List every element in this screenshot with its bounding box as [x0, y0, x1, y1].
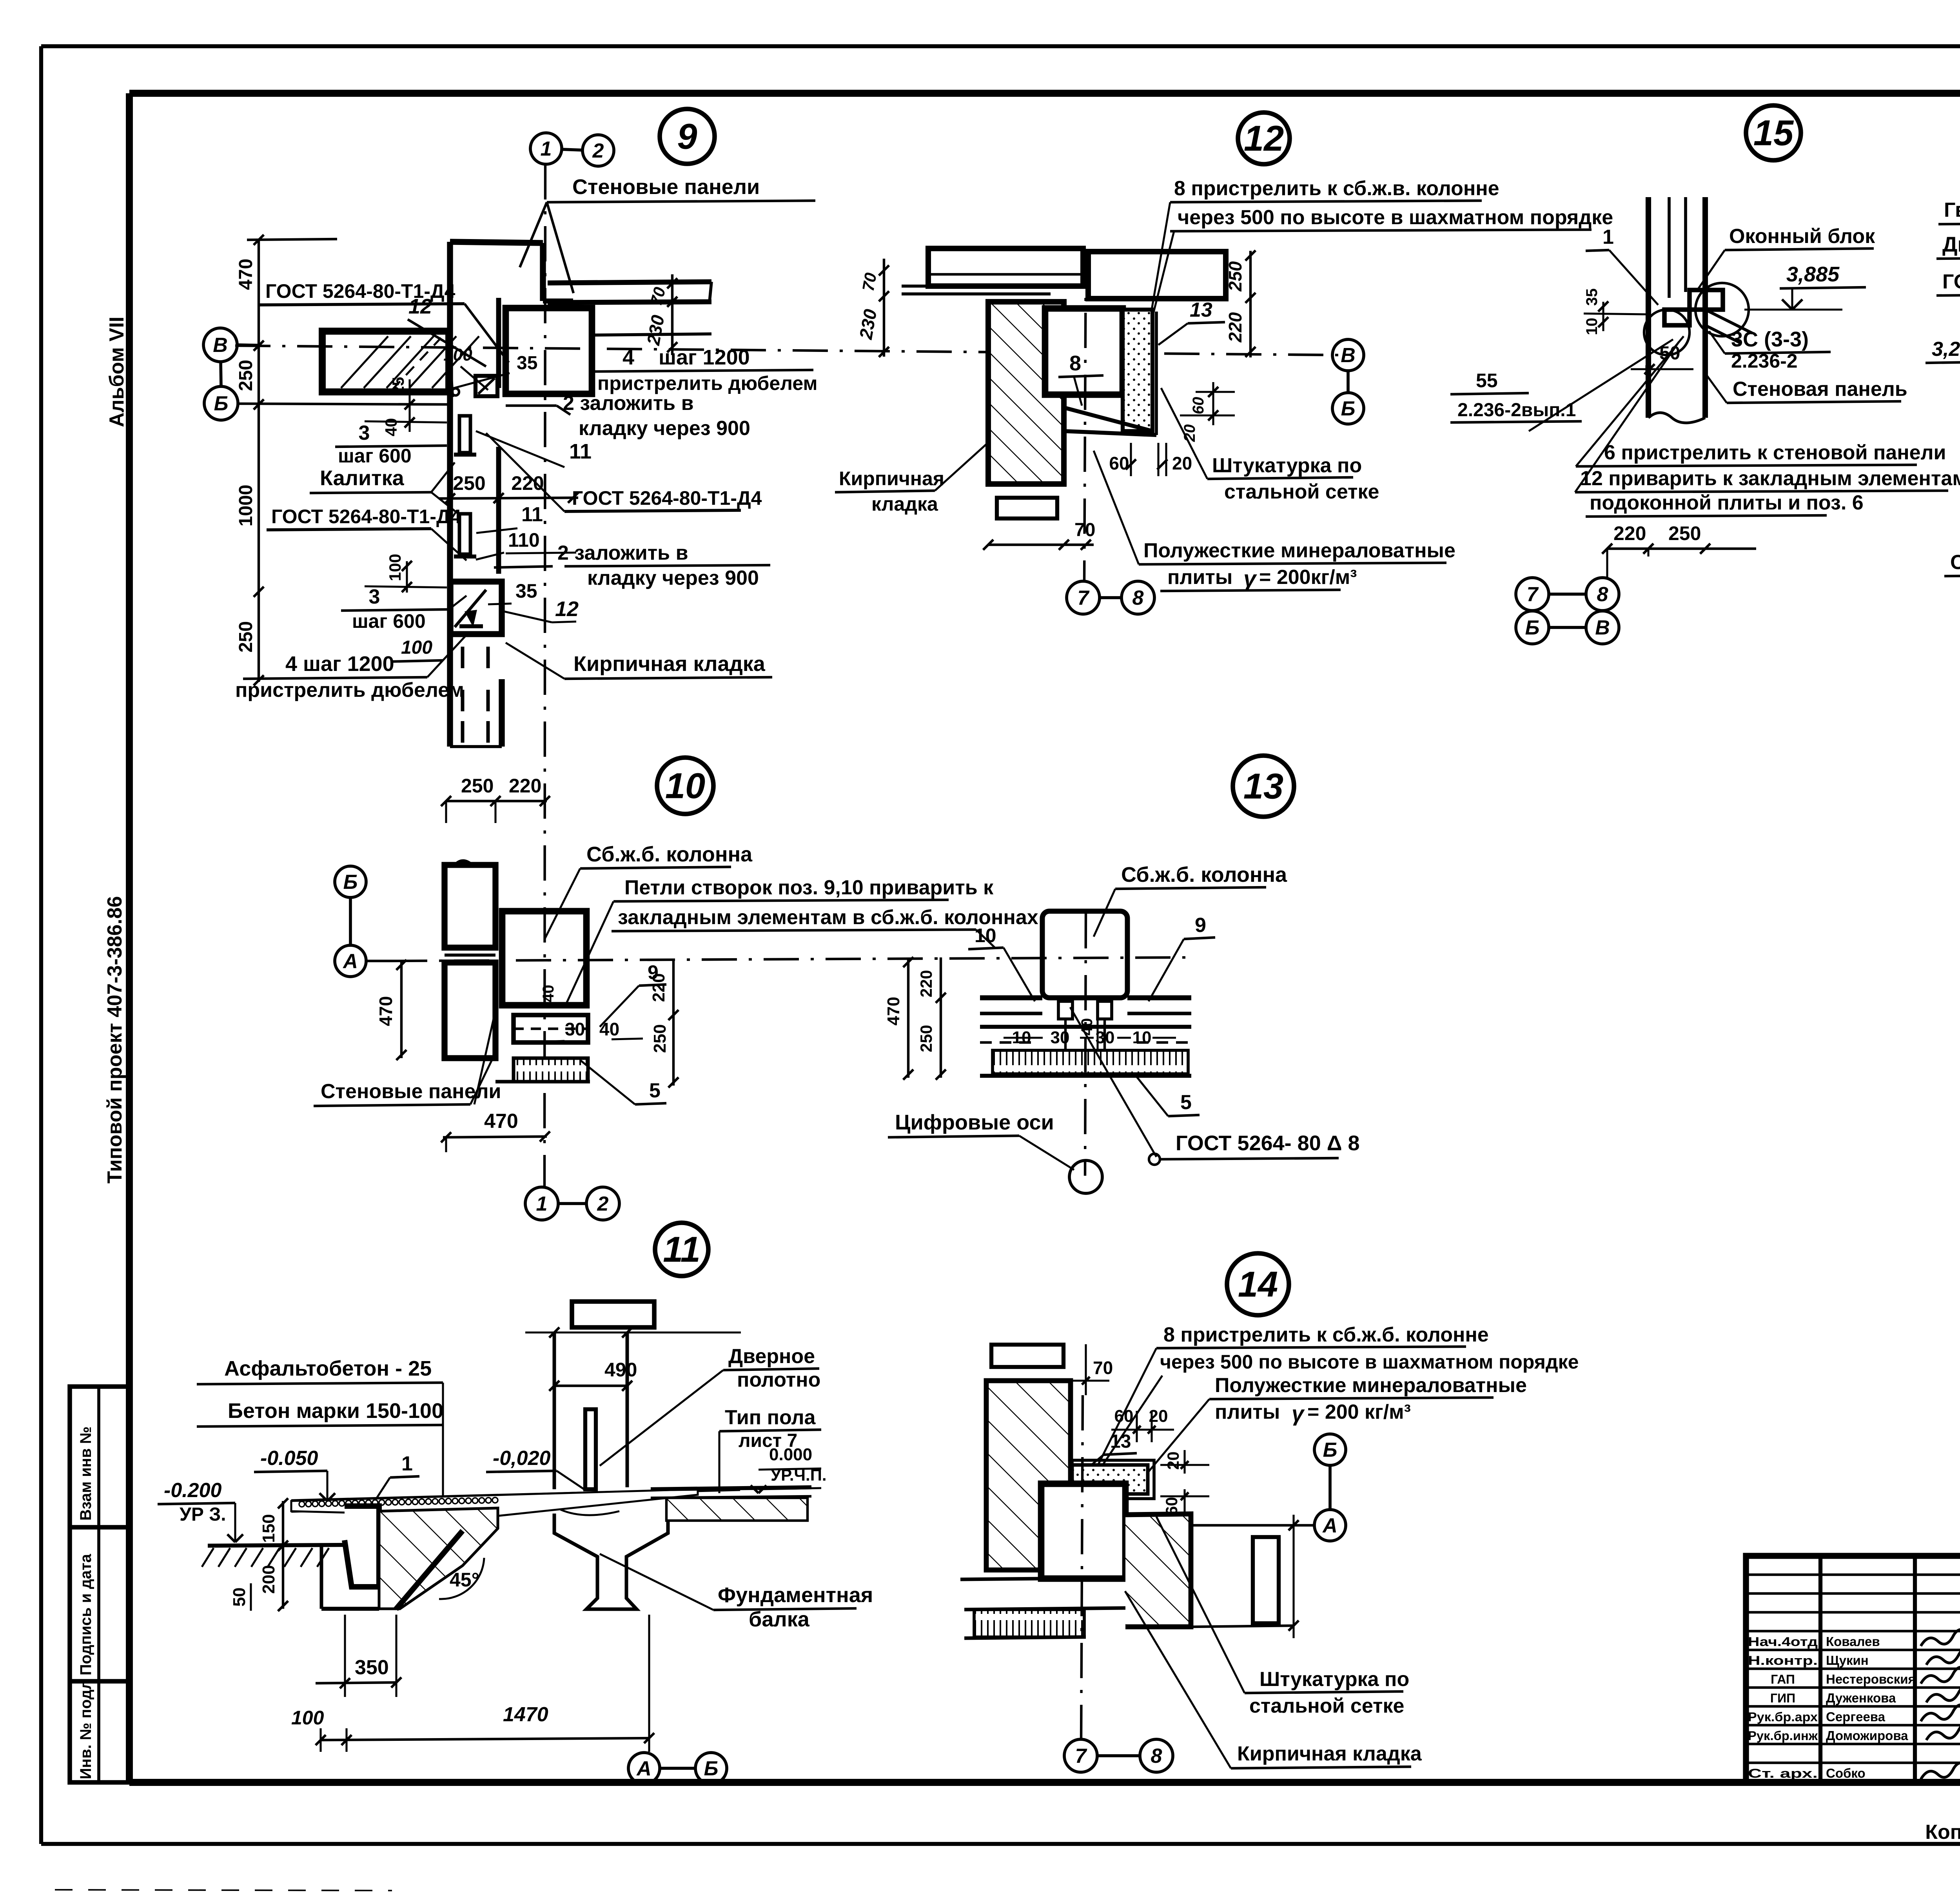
- detail 14 insulation strip hatched: [1072, 1460, 1154, 1499]
- detail 9 vertical axis line 1: [544, 164, 545, 1187]
- svg-text:3С (3-3): 3С (3-3): [1731, 328, 1809, 351]
- detail 11 dims 150 200 50 left: [230, 1498, 288, 1611]
- svg-text:3: 3: [359, 422, 370, 444]
- svg-text:250: 250: [236, 621, 256, 653]
- detail 9 gate post upper: [454, 416, 476, 455]
- svg-text:Б: Б: [1525, 616, 1540, 639]
- detail 10 dim 470 bottom: [441, 1110, 550, 1152]
- svg-text:8: 8: [1597, 583, 1608, 606]
- detail 15 elevation 3,885: [1744, 263, 1866, 310]
- svg-text:470: 470: [376, 996, 396, 1026]
- svg-text:кладку через 900: кладку через 900: [579, 417, 750, 440]
- detail 10 labels 40 9: [540, 961, 666, 1027]
- detail 9 label 100 bottom: [392, 637, 443, 662]
- detail 10 label Петли створок: [566, 876, 1038, 1003]
- detail 9 brick wall vertical: [450, 242, 573, 679]
- detail 16 elevation 3,280 left: [1926, 338, 1960, 383]
- svg-text:55: 55: [1476, 370, 1498, 392]
- detail 9 dim 70 230 right: [643, 274, 677, 355]
- detail 13 label 10 left 9 right: [968, 914, 1215, 1001]
- svg-text:А: А: [636, 1757, 652, 1780]
- svg-text:полотно: полотно: [737, 1369, 820, 1391]
- detail 12 label 8 пристрелить: [1152, 177, 1613, 314]
- detail 10 axis line А: [392, 957, 1188, 961]
- svg-text:через 500 по высоте в шахматно: через 500 по высоте в шахматном порядке: [1160, 1351, 1579, 1373]
- svg-text:Кирпичная кладка: Кирпичная кладка: [573, 652, 766, 676]
- detail 11 concrete wedge with hatch: [321, 1508, 498, 1609]
- detail 14 dims 60 20 top: [1111, 1407, 1174, 1442]
- detail 10 circle: [657, 758, 713, 814]
- detail 10 column: [502, 911, 586, 1005]
- title block job titles and names: [1748, 1634, 1916, 1780]
- detail 11 label Дверное полотно: [600, 1345, 820, 1466]
- svg-text:12 приварить к закладным элем: 12 приварить к закладным элементам: [1580, 467, 1960, 490]
- svg-text:Ст. арх.: Ст. арх.: [1748, 1766, 1818, 1780]
- svg-text:8: 8: [1069, 352, 1081, 375]
- svg-text:2.236-2вып.1: 2.236-2вып.1: [1457, 400, 1576, 421]
- detail 12 vertical axis 7: [1084, 251, 1086, 581]
- svg-text:Рук.бр.арх: Рук.бр.арх: [1748, 1710, 1818, 1724]
- detail 13 dim 40 center: [1078, 1003, 1098, 1050]
- svg-text:12: 12: [1244, 118, 1284, 158]
- svg-text:12: 12: [555, 597, 579, 621]
- svg-text:150: 150: [259, 1514, 278, 1543]
- detail 9 label Кирпичная кладка: [506, 643, 772, 679]
- svg-text:В: В: [1595, 616, 1610, 639]
- detail 14 axis bubbles Б А: [1125, 1434, 1346, 1541]
- svg-text:250: 250: [917, 1025, 935, 1052]
- svg-text:3,280: 3,280: [1932, 338, 1960, 361]
- svg-text:Дюбели ДГП 4,5х60: Дюбели ДГП 4,5х60: [1942, 233, 1960, 256]
- svg-text:60: 60: [1109, 453, 1129, 473]
- detail 14 label Кирпичная кладка: [1125, 1591, 1422, 1768]
- svg-text:Ковалев: Ковалев: [1826, 1634, 1880, 1649]
- svg-text:ГОСТ 5264-80-Т1-Д4: ГОСТ 5264-80-Т1-Д4: [271, 506, 461, 528]
- svg-text:8 пристрелить к сб.ж.б. колонн: 8 пристрелить к сб.ж.б. колонне: [1163, 1323, 1489, 1346]
- detail 12 vent opening: [997, 498, 1057, 518]
- detail 15 dims 35 10 50: [1583, 288, 1693, 374]
- svg-text:250: 250: [650, 1024, 670, 1053]
- svg-text:1: 1: [401, 1452, 413, 1475]
- detail 14 dim 70: [1071, 1344, 1113, 1395]
- detail 9 labels 11 110 lower: [476, 503, 576, 560]
- detail 9 wall panel left (hatched): [322, 331, 479, 392]
- detail 9 wall bottom continue: [450, 679, 502, 747]
- detail 15 label Стеновая панель: [1706, 374, 1907, 403]
- svg-text:Копировал Ермолина: Копировал Ермолина: [1925, 1821, 1960, 1844]
- svg-text:подоконной плиты и поз. 6: подоконной плиты и поз. 6: [1590, 491, 1864, 514]
- detail 11 angle 45 arc: [439, 1558, 484, 1599]
- left margin stamp table: [70, 1387, 129, 1782]
- svg-text:490: 490: [604, 1359, 637, 1381]
- detail 9 label 11 right: [476, 431, 592, 467]
- svg-text:12: 12: [408, 295, 432, 318]
- detail 15 leader lines to anchor: [1529, 336, 1684, 492]
- detail 15 label Оконный блок: [1697, 225, 1875, 290]
- detail 9 dims 25 40: [365, 377, 447, 437]
- svg-text:шаг 600: шаг 600: [338, 445, 412, 467]
- detail 10 label 5: [580, 1060, 666, 1104]
- detail 11 floor slab section: [291, 1489, 740, 1516]
- svg-text:Штукатурка по: Штукатурка по: [1259, 1668, 1409, 1691]
- svg-text:10: 10: [665, 766, 705, 806]
- detail 11 label Асфальтобетон Бетон: [197, 1357, 443, 1497]
- detail 12 brick wall section: [988, 302, 1064, 484]
- detail 12 dim 70 230 left: [855, 259, 889, 357]
- svg-text:кладку через 900: кладку через 900: [587, 567, 759, 589]
- detail 9 label 2 заложить в кладку upper: [506, 392, 750, 440]
- detail 11 door leaf: [585, 1409, 612, 1494]
- svg-text:ГОСТ 5264- 80 Δ 8: ГОСТ 5264- 80 Δ 8: [1176, 1131, 1360, 1155]
- detail 16 label Стальная площадка: [1944, 551, 1960, 576]
- detail 15 label 1: [1586, 226, 1658, 305]
- svg-text:350: 350: [355, 1656, 389, 1679]
- detail 9 dim 470 250 1000 250 left column: [236, 235, 337, 685]
- detail 11 curb block 1: [345, 1506, 379, 1587]
- left margin text: Типовой проект 407-3-386.86: [103, 896, 126, 1184]
- detail 15 label 3С (3-3) 2.236-2: [1709, 328, 1831, 372]
- svg-text:250: 250: [453, 472, 485, 494]
- detail 13 label Цифровые оси: [888, 1111, 1074, 1170]
- svg-text:стальной сетке: стальной сетке: [1224, 480, 1379, 503]
- svg-text:В: В: [213, 334, 228, 357]
- svg-text:А: А: [342, 950, 358, 973]
- detail 9 label 2 заложить в кладку lower: [494, 542, 770, 589]
- svg-text:40: 40: [540, 985, 557, 1002]
- detail 14 label Штукатурка по стальной сетке: [1156, 1517, 1409, 1717]
- svg-text:Петли створок поз. 9,10 привар: Петли створок поз. 9,10 приварить к: [624, 876, 994, 899]
- svg-text:220: 220: [1613, 522, 1646, 544]
- svg-text:А: А: [1322, 1514, 1338, 1537]
- detail 10 labels 30 40: [547, 1019, 643, 1042]
- bottom scan artifact line: [55, 1890, 392, 1891]
- svg-text:шаг 600: шаг 600: [352, 610, 426, 632]
- detail 14 brick pier right: [1125, 1514, 1299, 1638]
- detail 13 dims 10 30 30 10: [1004, 1028, 1176, 1047]
- detail 14 axis bubbles 7 8: [1064, 1739, 1173, 1772]
- svg-text:70: 70: [1093, 1358, 1113, 1378]
- svg-text:3,885: 3,885: [1786, 263, 1840, 286]
- detail 12 axis bubbles 7 8 bottom: [1067, 581, 1154, 614]
- detail 13 label ГОСТ 5264-80 ДВ: [1149, 1131, 1360, 1165]
- svg-text:15: 15: [1753, 113, 1794, 153]
- svg-text:11: 11: [663, 1229, 701, 1269]
- svg-text:35: 35: [515, 580, 537, 602]
- svg-text:14: 14: [1238, 1264, 1278, 1304]
- svg-text:Дверное: Дверное: [728, 1345, 815, 1368]
- svg-text:Б: Б: [704, 1757, 719, 1780]
- svg-text:пристрелить дюбелем: пристрелить дюбелем: [597, 372, 817, 394]
- svg-text:Б: Б: [1323, 1439, 1338, 1461]
- detail 11 vent block top: [572, 1302, 654, 1327]
- detail 11 label 1: [365, 1452, 419, 1517]
- detail 10 dim 220 250 right rotated: [649, 961, 679, 1088]
- svg-text:13: 13: [1110, 1431, 1131, 1452]
- svg-text:6 пристрелить к стеновой пане: 6 пристрелить к стеновой панели: [1604, 441, 1946, 464]
- svg-text:30: 30: [565, 1019, 585, 1039]
- detail 11 ground line and hatch left: [202, 1545, 345, 1567]
- detail 13 vertical axis and leader: [1070, 913, 1156, 1176]
- svg-text:Дуженкова: Дуженкова: [1826, 1691, 1896, 1705]
- svg-text:Стеновые панели: Стеновые панели: [321, 1080, 501, 1103]
- svg-text:Фундаментная: Фундаментная: [718, 1583, 873, 1607]
- detail 14 vertical axis 7: [1081, 1395, 1083, 1740]
- svg-text:УР З.: УР З.: [180, 1504, 226, 1525]
- detail 9 upper panel strip: [548, 282, 711, 335]
- svg-text:60: 60: [1114, 1407, 1134, 1426]
- svg-text:Стеновая панель: Стеновая панель: [1733, 378, 1907, 401]
- left margin text: Альбом VII: [105, 317, 128, 427]
- detail 16 label Гвозди: [1938, 199, 1960, 347]
- svg-text:Подпись и дата: Подпись и дата: [77, 1554, 94, 1675]
- svg-text:ГИП: ГИП: [1770, 1691, 1795, 1705]
- svg-text:кладка: кладка: [871, 493, 938, 515]
- svg-text:200: 200: [259, 1565, 278, 1593]
- svg-text:35: 35: [517, 353, 537, 373]
- svg-text:ГОСТ 5264-80-Т1-Д4: ГОСТ 5264-80-Т1-Д4: [572, 487, 762, 509]
- detail 11 label -0,020: [486, 1447, 584, 1489]
- detail 9 label 4 шаг 1200 bottom: [235, 635, 466, 702]
- detail 16 label ГОСТ 5264-80-Н1-Д4: [1936, 270, 1960, 368]
- svg-text:Б: Б: [1341, 397, 1356, 420]
- svg-text:100: 100: [291, 1707, 324, 1729]
- detail 12 axis В Б bubbles: [1332, 339, 1364, 424]
- svg-text:Бетон марки 150-100: Бетон марки 150-100: [228, 1399, 443, 1423]
- svg-text:Сб.ж.б. колонна: Сб.ж.б. колонна: [586, 843, 753, 866]
- detail 14 circle: [1227, 1253, 1289, 1315]
- detail 12 circle: [1238, 112, 1290, 164]
- detail 12 dim 250 220 right: [1225, 250, 1256, 357]
- svg-text:470: 470: [236, 259, 256, 290]
- svg-text:2: 2: [597, 1193, 609, 1215]
- detail 14 dims 20 60 rotated: [1160, 1450, 1209, 1521]
- detail 14 label 13: [1086, 1431, 1137, 1470]
- svg-text:2 заложить в: 2 заложить в: [563, 392, 694, 415]
- detail 9 label Калитка: [310, 462, 458, 513]
- svg-text:балка: балка: [749, 1608, 810, 1631]
- svg-text:Кирпичная: Кирпичная: [839, 468, 944, 489]
- detail 14 brick wall with hatch: [986, 1381, 1071, 1570]
- svg-text:100: 100: [401, 637, 432, 658]
- detail 9 horizontal axis В: [235, 346, 1341, 355]
- detail 10 wall panel vertical strip: [445, 861, 495, 1058]
- detail 14 label 8 пристрелить к сб.ж.б. колонне: [1098, 1323, 1579, 1470]
- svg-text:γ: γ: [1243, 566, 1257, 591]
- detail 9 axis bubbles В Б left: [203, 328, 259, 420]
- detail 10 dim 250 220 top: [441, 775, 550, 823]
- detail 12 dim 60 20 right small: [1180, 382, 1235, 442]
- svg-text:470: 470: [884, 997, 903, 1025]
- detail 12 label Кирпичная кладка left: [835, 443, 988, 515]
- detail 9 label ГОСТ 5264-80-Т1-Д4 right: [486, 433, 762, 511]
- svg-text:470: 470: [484, 1110, 518, 1133]
- svg-text:Стеновые панели: Стеновые панели: [572, 175, 760, 199]
- detail 14 top rect: [991, 1345, 1063, 1367]
- svg-text:8: 8: [1151, 1745, 1162, 1767]
- detail 13 label 5: [1137, 1077, 1200, 1116]
- svg-text:70: 70: [859, 271, 880, 292]
- svg-text:Тип пола: Тип пола: [725, 1406, 816, 1429]
- detail 9 label 3 шаг 600 upper: [335, 422, 447, 467]
- svg-text:-0.200: -0.200: [164, 1479, 222, 1502]
- detail 9 axis Б line: [238, 404, 450, 404]
- svg-text:220: 220: [917, 970, 935, 997]
- detail 11 label -0.050: [254, 1447, 335, 1501]
- svg-text:30: 30: [1051, 1028, 1070, 1047]
- detail 12 dim 70 bottom: [983, 520, 1095, 550]
- svg-text:8 пристрелить к сб.ж.в. колонн: 8 пристрелить к сб.ж.в. колонне: [1174, 177, 1499, 200]
- detail 15 window block elements: [1644, 283, 1752, 355]
- detail 10 panel joint marks: [445, 955, 495, 961]
- detail 11 label -0.200 УР З: [158, 1479, 243, 1542]
- detail 15 circle: [1746, 105, 1801, 160]
- svg-text:13: 13: [1243, 766, 1283, 806]
- svg-text:35: 35: [1583, 288, 1601, 306]
- detail 10 panel right with hatch: [495, 1015, 590, 1082]
- svg-text:Альбом VII: Альбом VII: [105, 317, 128, 427]
- detail 9 labels 3 шаг 600 lower: [341, 586, 466, 632]
- svg-text:Сергеева: Сергеева: [1826, 1709, 1886, 1724]
- svg-text:1000: 1000: [236, 485, 256, 527]
- svg-text:13: 13: [1190, 299, 1212, 321]
- svg-text:через 500 по высоте в шахматно: через 500 по высоте в шахматном порядке: [1178, 206, 1613, 229]
- svg-text:плиты: плиты: [1167, 566, 1232, 589]
- detail 9 dim 100 lower: [365, 554, 447, 593]
- detail 12 label 13: [1158, 299, 1225, 345]
- svg-text:4: 4: [622, 346, 634, 369]
- detail 15 label 55 2.236-2вып.1: [1450, 370, 1582, 422]
- svg-text:20: 20: [1172, 453, 1192, 473]
- detail 9 labels 100 35 upper: [443, 345, 537, 390]
- svg-text:Кирпичная кладка: Кирпичная кладка: [1237, 1742, 1422, 1765]
- svg-text:Доможирова: Доможирова: [1826, 1728, 1908, 1743]
- svg-text:ГАП: ГАП: [1771, 1672, 1795, 1686]
- svg-text:Нестеровския: Нестеровския: [1826, 1672, 1916, 1686]
- svg-text:Б: Б: [343, 871, 358, 894]
- svg-text:220: 220: [649, 973, 668, 1002]
- detail 10 axis bubbles 1 2 bottom: [525, 1187, 619, 1220]
- svg-text:-0.050: -0.050: [260, 1447, 318, 1470]
- detail 13 target circle: [1069, 1160, 1102, 1193]
- detail 9 gate hinge detail upper: [452, 376, 497, 397]
- detail 11 label Фундаментная балка: [600, 1554, 873, 1631]
- detail 13 label Сб.ж.б. колонна: [1094, 863, 1287, 937]
- svg-text:ГОСТ 5264-80-Н1-Д4: ГОСТ 5264-80-Н1-Д4: [1942, 270, 1960, 293]
- svg-text:20: 20: [1164, 1452, 1182, 1470]
- svg-text:плиты: плиты: [1215, 1401, 1280, 1423]
- detail 10 axis bubbles Б А: [335, 866, 392, 977]
- detail 9 label 4 шаг 1200 upper: [592, 346, 817, 394]
- title block signatures: [1921, 1630, 1960, 1779]
- svg-text:Штукатурка по: Штукатурка по: [1212, 454, 1362, 477]
- svg-text:11: 11: [521, 503, 543, 526]
- svg-text:250: 250: [461, 775, 494, 797]
- detail 15 axis bubbles 7 8 Б В: [1516, 578, 1619, 644]
- svg-text:100: 100: [443, 345, 472, 364]
- detail 11 asphalt bead band: [299, 1497, 498, 1507]
- detail 9 label Стеновые панели: [520, 175, 815, 293]
- svg-text:10: 10: [975, 925, 996, 946]
- svg-text:= 200 кг/м³: = 200 кг/м³: [1307, 1401, 1411, 1423]
- svg-text:Б: Б: [214, 392, 229, 415]
- detail 15 label 6 пристрелить к стеновой панели: [1575, 441, 1960, 517]
- detail 11 dim 350: [316, 1615, 401, 1697]
- detail 9 gate post lower: [454, 514, 476, 557]
- svg-text:Цифровые оси: Цифровые оси: [895, 1111, 1054, 1134]
- detail 10 label Стеновые панели: [314, 1003, 501, 1106]
- detail 11 dim 100 1470: [291, 1615, 654, 1752]
- svg-text:1: 1: [536, 1193, 548, 1215]
- detail 15 dim 220 250 bottom: [1602, 522, 1756, 578]
- detail 11 axis bubbles А Б: [628, 1753, 727, 1784]
- svg-text:Нач.4отд: Нач.4отд: [1748, 1635, 1818, 1649]
- svg-text:Рук.бр.инж: Рук.бр.инж: [1748, 1729, 1818, 1743]
- detail 11 label Тип пола лист 7 0.000: [719, 1406, 827, 1493]
- detail 9 top-right wall panel block: [506, 308, 592, 394]
- svg-text:250: 250: [1668, 522, 1701, 544]
- detail 11 circle: [655, 1223, 708, 1276]
- detail 12 label Полужесткие минераловатные плиты: [1094, 451, 1455, 591]
- svg-text:стальной сетке: стальной сетке: [1249, 1695, 1404, 1717]
- svg-text:5: 5: [1180, 1091, 1192, 1114]
- svg-text:220: 220: [1225, 312, 1245, 343]
- svg-text:1: 1: [541, 138, 552, 160]
- svg-text:220: 220: [509, 775, 541, 797]
- detail 11 wall verticals: [525, 1327, 741, 1489]
- detail 13 circle: [1233, 756, 1294, 817]
- svg-text:В: В: [1341, 344, 1356, 367]
- svg-text:Полужесткие минераловатные: Полужесткие минераловатные: [1215, 1374, 1527, 1397]
- note Копировал Ермолина: [1925, 1821, 1960, 1844]
- detail 12 column section: [1045, 308, 1123, 395]
- detail 9 lower anchor block: [450, 582, 502, 634]
- detail 9 circle: [660, 109, 715, 164]
- detail 13 anchor marks: [1058, 1001, 1112, 1050]
- svg-text:40: 40: [599, 1019, 619, 1039]
- detail 16 label Дюбели ДГП 45х60: [1936, 233, 1960, 355]
- svg-text:10: 10: [1132, 1028, 1152, 1047]
- detail 13 column: [1042, 911, 1127, 998]
- detail 14 label Полужесткие минераловатные плиты: [1149, 1374, 1527, 1472]
- detail 12 dim 60 20 bottom: [1109, 443, 1192, 476]
- svg-text:Инв. № подл: Инв. № подл: [77, 1680, 94, 1779]
- svg-text:9: 9: [1195, 914, 1206, 937]
- svg-text:Калитка: Калитка: [320, 466, 405, 490]
- svg-text:1: 1: [1602, 226, 1614, 248]
- detail 14 lower wall vertical hatch: [960, 1578, 1125, 1638]
- svg-text:110: 110: [508, 529, 540, 551]
- svg-text:9: 9: [677, 116, 697, 156]
- svg-text:250: 250: [236, 360, 256, 391]
- svg-text:Оконный блок: Оконный блок: [1729, 225, 1875, 248]
- svg-text:1470: 1470: [503, 1703, 548, 1726]
- title block main stamp: [1746, 1556, 1960, 1782]
- svg-text:2 заложить в: 2 заложить в: [557, 542, 688, 564]
- svg-text:7: 7: [1527, 583, 1539, 606]
- svg-text:Стальная площадка: Стальная площадка: [1950, 551, 1960, 574]
- detail 12 label Штукатурка по стальной сетке: [1161, 388, 1379, 503]
- detail 10 dim 470 left: [376, 960, 407, 1060]
- svg-text:100: 100: [386, 554, 404, 581]
- svg-text:Н.контр.: Н.контр.: [1748, 1653, 1818, 1668]
- svg-text:0.000: 0.000: [769, 1445, 812, 1464]
- svg-text:7: 7: [1078, 587, 1090, 609]
- svg-text:Собко: Собко: [1826, 1766, 1866, 1780]
- svg-text:3: 3: [369, 586, 380, 608]
- detail 9 label ГОСТ 5264-80-Т1-Д4 lower-left: [267, 506, 466, 560]
- svg-text:45°: 45°: [450, 1569, 479, 1591]
- svg-text:11: 11: [569, 440, 592, 463]
